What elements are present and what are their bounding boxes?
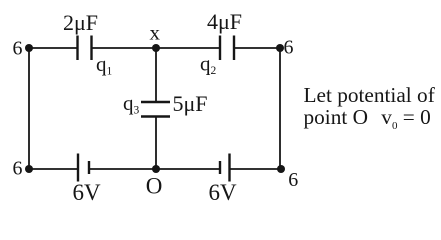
wire: top rail left segment (29, 47, 78, 49)
capacitor C2 4uF plates (220, 36, 234, 61)
battery V1 6V left (78, 154, 89, 182)
svg-text:Let potential of: Let potential of (304, 83, 436, 107)
svg-text:6: 6 (13, 37, 23, 59)
svg-text:6V: 6V (208, 180, 237, 205)
wire: bottom rail middle segment (89, 168, 220, 170)
node x junction dot (152, 44, 160, 52)
node: top-right corner junction (276, 44, 284, 52)
svg-text:x: x (149, 21, 160, 45)
wire: bottom rail left segment (29, 168, 78, 170)
node: bottom-right corner junction (277, 165, 285, 173)
wire: bottom rail right segment (230, 168, 282, 170)
capacitor C3 5uF plates (141, 102, 170, 117)
svg-text:point O: point O (304, 105, 368, 129)
svg-text:v0 = 0: v0 = 0 (381, 105, 430, 132)
node: bottom-left corner junction (25, 165, 33, 173)
svg-text:6: 6 (284, 36, 294, 58)
svg-text:O: O (146, 174, 163, 199)
wire: top rail right segment (234, 47, 280, 49)
svg-text:2μF: 2μF (63, 10, 98, 35)
wire: middle branch upper (node x to C3) (155, 48, 157, 102)
svg-text:4μF: 4μF (207, 9, 242, 34)
svg-text:q3: q3 (123, 91, 140, 116)
svg-text:6: 6 (288, 169, 298, 191)
svg-text:q2: q2 (200, 52, 217, 77)
wire: top rail middle segment (92, 47, 221, 49)
wire: right vertical branch (279, 48, 281, 169)
svg-text:6V: 6V (72, 180, 101, 205)
node: top-left corner junction (25, 44, 33, 52)
svg-text:6: 6 (13, 157, 23, 179)
svg-text:q1: q1 (96, 52, 113, 77)
capacitor C1 2uF plates (78, 36, 92, 61)
node O junction dot (152, 165, 160, 173)
wire: left vertical branch (28, 48, 30, 169)
svg-text:5μF: 5μF (173, 91, 208, 116)
battery V2 6V right (220, 154, 230, 182)
wire: middle branch lower (C3 to node O) (155, 117, 157, 170)
